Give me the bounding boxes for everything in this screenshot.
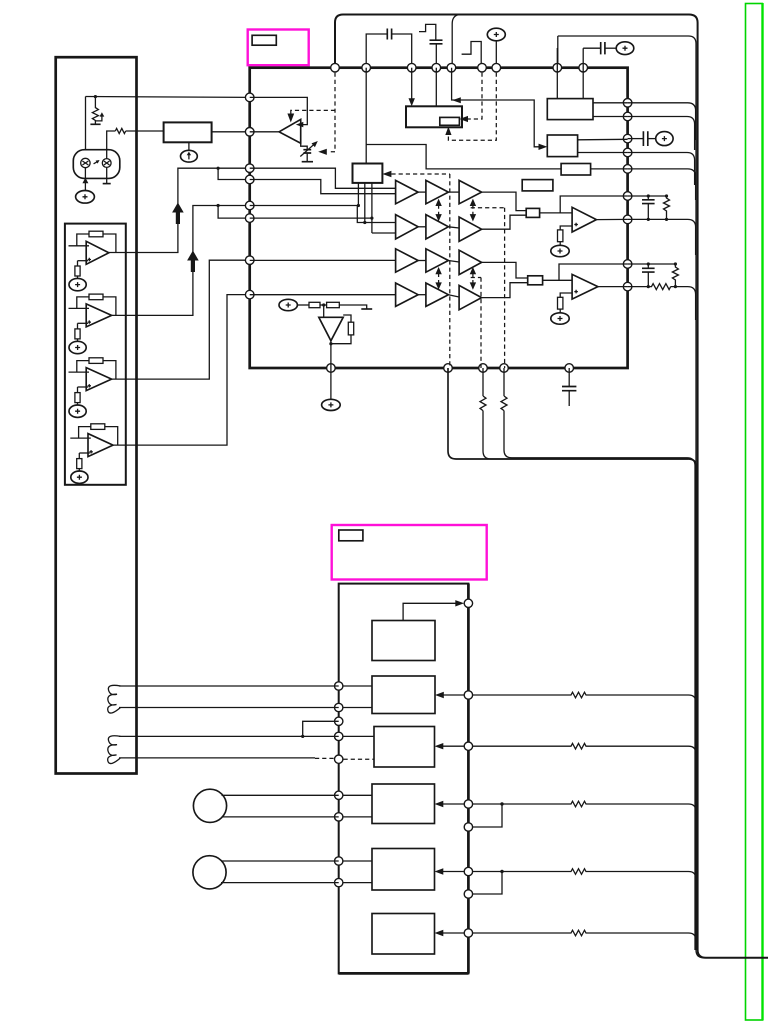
merge rect M2 (528, 276, 543, 285)
buffer U9b (426, 283, 449, 306)
dashed stub into D3 (344, 758, 375, 760)
wire: feedback into D4 with arrowhead (443, 803, 465, 805)
driver box D1 (372, 621, 435, 661)
mixer merge wires pair 2 (482, 262, 528, 278)
block B (547, 135, 577, 157)
wire: M2 tee up to pin y264 (559, 264, 628, 280)
resistor R12 (bias) (75, 266, 80, 276)
arrowhead to node (455, 600, 464, 606)
U2 input wire (69, 307, 90, 309)
U3 bias wire (77, 387, 79, 393)
wire: L2 top to driver pin (with jog) (119, 735, 339, 737)
wire: U12 output to pin (330, 341, 332, 368)
arrowhead into B (539, 144, 548, 150)
arrowhead into comparator back (296, 122, 304, 127)
wire to supply oval (559, 242, 561, 246)
mixer merge wires pair 1 (482, 192, 527, 211)
IC pins left edge (245, 93, 254, 299)
wire: preamp4 output riser to pin (y294.6) (113, 295, 250, 446)
resistor R22 (bias) (75, 329, 80, 339)
junction (363, 221, 366, 224)
wire: head left leg down (84, 168, 86, 191)
wire: pin y152.5 to bus (628, 153, 695, 186)
green page frame (746, 4, 763, 1021)
head gap symbol left (81, 158, 90, 167)
wire: top-right cap feed (583, 47, 601, 49)
wire: rect C to pin (591, 168, 628, 170)
dashed continuation to pin (315, 757, 334, 759)
bias transfer arrow pair 2 (col3) (470, 267, 476, 290)
resistor R18 (vertical zigzag) (664, 196, 670, 219)
flux arrow between gaps (94, 161, 99, 164)
wire: pin to rect A left leg (556, 48, 558, 99)
wire: R16 to ground (339, 305, 366, 309)
resistor R16 (327, 302, 340, 307)
wire: C2 to pin (435, 44, 437, 64)
junction (500, 802, 503, 805)
capacitor C5 plates (643, 131, 647, 146)
wire: pin x569.2 to cap (568, 368, 570, 386)
driver box D5 (372, 849, 435, 891)
ground bar on head right leg (103, 183, 111, 185)
wire: L1 top to driver pin (119, 685, 339, 687)
wire: switch block drop 2 (364, 183, 366, 223)
output amp U11 (572, 274, 598, 299)
U2 bias wire (77, 323, 79, 329)
U4 bias wire (78, 453, 80, 459)
ground bar (361, 308, 372, 310)
U4 feedback wire right (105, 427, 118, 446)
resistor R14 (U11 bias) (558, 297, 563, 309)
ref amp U12 (points down) (319, 317, 343, 341)
wire: M2 upper lead (221, 860, 339, 862)
buffer U7a (396, 215, 419, 239)
wire: pin x504 leg (503, 368, 505, 396)
wire: row2 lower input (250, 218, 396, 233)
plus mark at U1 input (88, 258, 91, 261)
outer supply bus (top rail, right rail, bottom-right exit) (335, 15, 768, 958)
rect D (level set 2) (522, 180, 553, 191)
junctions (647, 285, 650, 288)
wire: left pins into D5 (339, 860, 372, 862)
junction (500, 870, 503, 873)
wire: pin to rect A right leg (582, 48, 584, 98)
screw mark left (82, 161, 88, 165)
plus sign in B1 (83, 194, 88, 199)
wire: preamp1 output riser to pin (y168.6) (109, 168, 250, 252)
wire: U10 output to pin (596, 218, 627, 220)
wire: C5 to oval (648, 138, 656, 140)
junction (370, 217, 373, 220)
comparator U5 (points left) (279, 119, 301, 143)
U2 bias wire to supply (77, 339, 79, 342)
connector arrow A2 (solid) (187, 251, 199, 273)
feedback wire (343, 315, 351, 322)
RC network 2 top wire (628, 263, 676, 265)
arrow into comparator top (solid) (287, 114, 294, 123)
dashed link from top pin (328, 73, 335, 152)
screw mark right (104, 161, 110, 165)
arrowhead into oscillator (409, 98, 415, 106)
wire: B out 1 (578, 138, 628, 141)
op-amp U4 triangle (88, 434, 113, 457)
wire: R15 to R16 (320, 304, 327, 306)
bottom driver block bottom edge (thick) (339, 972, 469, 975)
arrowhead trim link bottom (up into block) (445, 127, 451, 135)
wire: U11 bias (560, 293, 572, 297)
wire: amp2 output line to bus (671, 287, 696, 320)
sense line 5 with resistor R27 (473, 930, 696, 950)
U3 bias wire to supply (77, 403, 79, 406)
preamp U1 (69, 231, 116, 291)
junction (217, 167, 220, 170)
U1 bias wire to supply (77, 276, 79, 279)
highlight box 2 (magenta) (332, 525, 487, 580)
wire link (448, 295, 459, 297)
wire: switch block drop 1 (357, 183, 359, 206)
plus mark at U4 input (89, 450, 92, 453)
ground bar under R1 (90, 123, 100, 125)
highlight box 1 (magenta) (248, 30, 309, 66)
bias transfer arrow pair 2 (col2) (435, 267, 441, 290)
wire link (418, 226, 426, 228)
rect C (level set) (561, 164, 591, 176)
wire: M1 tee up to pin y196 (560, 196, 627, 213)
supply oval B9 (279, 299, 297, 310)
wire link (448, 227, 459, 228)
sense line 1 with resistor R23 (473, 692, 696, 730)
bias transfer arrow pair 1 (col3) (470, 199, 476, 222)
bottom driver block outline (339, 584, 469, 974)
buffer U7c (459, 217, 482, 241)
buffer U9a (396, 283, 419, 306)
wire: D1 to output node (403, 603, 456, 620)
capacitor C3 plates (601, 42, 605, 54)
buffer U8c (459, 250, 482, 274)
logic-level symbol G2 (462, 42, 482, 64)
wire: feed into B (452, 68, 539, 147)
wire: cap loop right leg (392, 34, 412, 64)
supply oval B21 (69, 341, 86, 353)
wire link (418, 260, 426, 262)
wire to supply oval (559, 309, 561, 313)
preamp sub-box (65, 224, 126, 485)
wire: B5 to pin (495, 41, 497, 64)
wire: R22a to lower bus (504, 411, 695, 950)
jog wire up to pin y721.3 (303, 721, 339, 736)
arrow glyph inside supply oval (188, 153, 190, 159)
wire: jog pin y179.5 (218, 168, 250, 179)
capacitor C1 plates (387, 29, 391, 40)
U1 feedback wire right (103, 234, 116, 253)
plus mark in U10 (574, 223, 578, 227)
wire: B out 2 (578, 152, 628, 154)
arrowhead trim link right (459, 116, 468, 122)
wire: feedback into D3 with arrowhead (443, 745, 465, 747)
U2 feedback wire left (77, 297, 89, 309)
supply oval B11 (69, 278, 86, 290)
wire: row3 input (250, 259, 396, 261)
wire: U11 output to pin (598, 286, 628, 288)
coil L2 (108, 736, 121, 764)
buffer U6c (459, 180, 482, 203)
resistor R42 (bias) (77, 459, 82, 469)
wire: M1 to output amp (540, 212, 573, 214)
wire: pin drop into oscillator 2 (435, 68, 437, 107)
plus mark at U3 input (88, 384, 91, 387)
supply oval under EQ block (181, 150, 198, 162)
U3 feedback wire right (103, 361, 116, 380)
supply oval B6 (616, 42, 634, 55)
main IC block outline (250, 68, 628, 368)
dashed vertical bus 1 (449, 174, 451, 368)
wire: pin drop into oscillator (411, 68, 413, 100)
varicap hook from comparator (301, 139, 308, 150)
coil L1 (108, 685, 121, 713)
plus sign in B21 (75, 345, 80, 350)
capacitor C7 (647, 264, 649, 268)
U4 bias wire to supply (78, 469, 80, 472)
varicap C4 plates (303, 150, 311, 153)
wire: amp1 output line to bus (628, 219, 696, 255)
resistor R22a (vertical zigzag) (501, 396, 507, 411)
trimmer hook beside R1 (95, 115, 102, 121)
oscillator block (top-center) (406, 106, 462, 127)
head gap symbol right (102, 159, 111, 168)
junction (301, 735, 304, 738)
buffer U9c (459, 285, 482, 309)
wire: C3 to oval (605, 47, 616, 49)
plus sign in B10 (662, 136, 667, 141)
plus sign in B7 (558, 249, 563, 254)
U4 input wire (70, 437, 91, 439)
buffer U6a (396, 180, 419, 203)
dashed trim link right (468, 73, 483, 119)
resistor R21 (feedback) (89, 294, 103, 300)
driver box D6 (372, 914, 435, 955)
resistor R2 (horizontal zigzag) (115, 128, 125, 133)
resistor R19 (vertical zigzag) (672, 264, 678, 287)
inner supply bus branch (corner to pin) (452, 15, 460, 64)
wire: B9 to R15 (297, 304, 309, 306)
wire: left pins into D2 (339, 685, 372, 687)
wire: branch to rect C jog (366, 145, 561, 169)
bottom driver block right edge (thick) (467, 584, 470, 974)
dashed control line to switch block (391, 173, 449, 175)
wire: left pins into D4 (339, 794, 372, 796)
dashed vertical bus 2 (504, 208, 506, 368)
label rect inside highlight box 1 (252, 35, 276, 45)
wire: row1 upper input (250, 168, 396, 188)
op-amp U2 triangle (86, 304, 111, 327)
bias transfer arrow pair 1 (col2) (435, 199, 441, 222)
U1 plus input stub (78, 260, 89, 262)
wire: M2 to output amp (543, 279, 573, 281)
wire link (418, 294, 426, 296)
wire: row4 input (250, 294, 396, 296)
IC pins right edge (623, 99, 632, 291)
jog from pin y894 (473, 872, 502, 895)
wire: A out 2 (593, 116, 628, 118)
buffer U7b (426, 215, 449, 239)
tape head body (73, 150, 120, 179)
wire: pin y97.4 into comparator (250, 97, 308, 124)
green frame right edge (thicker) (761, 3, 763, 1021)
wire: pin y102.8 to bus (628, 103, 696, 140)
preamp U2 (69, 294, 116, 354)
battery oval B1 (76, 191, 95, 204)
buffer U8a (396, 249, 419, 272)
varicap ground leg (306, 153, 308, 162)
buffer U8b (426, 249, 449, 272)
RC network 1 top wire (628, 195, 667, 197)
arrowhead into switch block right edge (382, 171, 391, 178)
plus sign in B11 (75, 282, 80, 287)
buffer U6b (426, 180, 449, 203)
wire: pin y168.9 to bus (628, 169, 696, 200)
resistor R21a (vertical zigzag) (480, 396, 486, 411)
wire: inner bus drop to top pin (557, 36, 559, 64)
wire: R21a to lower bus (483, 411, 688, 459)
junction (357, 204, 360, 207)
wire: U10 bias (560, 226, 572, 230)
capacitor C8 (562, 387, 576, 391)
arrowhead (left) at varicap (318, 149, 327, 155)
U4 feedback wire left (79, 427, 91, 439)
IC pins bottom edge (327, 364, 574, 373)
driver box D4 (372, 784, 435, 824)
resistor R11 (feedback) (89, 231, 103, 237)
supply oval B8 (551, 313, 569, 324)
wire: pin y116.5 to bus (628, 117, 695, 151)
sense line 2 with resistor R24 (473, 743, 696, 785)
wire: row2 upper input (250, 206, 396, 223)
junctions (647, 194, 650, 197)
trim rect inside oscillator block (440, 117, 460, 125)
wire: L2 bottom line (119, 757, 315, 759)
plus sign in B5 (494, 32, 499, 37)
U2 plus input stub (78, 322, 89, 324)
junctions (647, 262, 650, 265)
ground bar under varicap (302, 161, 313, 163)
wire: pin y131.8 to comparator apex (250, 131, 279, 133)
resistor R17 (feedback) (348, 322, 353, 335)
wire: pin y=366 drop to switch block (365, 68, 367, 164)
jog from pin y827 (473, 804, 502, 827)
IC pins top edge (331, 63, 588, 72)
driver box D2 (372, 676, 435, 714)
junction (329, 342, 332, 345)
U3 plus input stub (78, 386, 89, 388)
wire: feedback into D6 with arrowhead (443, 932, 465, 934)
wire link (448, 261, 459, 263)
label rect inside highlight box 2 (339, 530, 363, 541)
plus sign in B6 (623, 46, 628, 51)
sense line 3 with resistor R25 (473, 801, 696, 840)
motor M1 (193, 789, 226, 822)
wire: switch block drop 3 (371, 183, 373, 233)
wire: R2 to EQ block (126, 130, 164, 132)
resistor R1 (vertical zigzag) (92, 97, 98, 124)
wire: feedback into D2 with arrowhead (443, 694, 464, 696)
feedback return (331, 335, 351, 344)
EQ amp block (164, 122, 212, 142)
arrowhead on trimmer (100, 112, 105, 116)
resistor R32 (bias) (75, 393, 80, 403)
driver block pins left edge (335, 682, 343, 887)
varicap arrow (diagonal) (300, 144, 314, 156)
preamp U4 (70, 424, 117, 484)
arrow on head left leg (82, 178, 88, 184)
resistor R15 (309, 302, 320, 307)
capacitor C2 plates (430, 40, 443, 44)
dashed corner to bus 2 (471, 207, 505, 209)
resistor R20 (horizontal zigzag on output) (628, 284, 671, 290)
resistor R31 (feedback) (89, 358, 103, 364)
junction (217, 204, 220, 207)
wire: EQ block to its supply oval (188, 142, 190, 150)
U3 input wire (69, 371, 90, 373)
wire: bias feed to IC pin (y96.5) (86, 96, 250, 99)
U1 feedback wire left (77, 234, 89, 246)
regulator block A (547, 99, 593, 120)
supply oval B5 (487, 28, 505, 41)
U3 feedback wire left (77, 361, 89, 373)
sense line 4 with resistor R26 (473, 869, 696, 911)
plus sign in B12 (328, 402, 333, 407)
U1 bias wire (77, 261, 79, 266)
arrowhead at feed corner (452, 97, 461, 103)
plus sign in B8 (558, 316, 563, 321)
merge rect M1 (526, 208, 539, 217)
wire: pin x483 leg (482, 368, 484, 396)
wire: head right leg down (106, 167, 108, 183)
wire: pin x330.9 to supply oval (330, 368, 332, 399)
inner bus rail (right side second conductor) (558, 36, 768, 958)
wire link (418, 191, 426, 193)
junction (322, 303, 325, 306)
wire: L1 bottom to driver pin (119, 707, 339, 709)
dashed trim link bottom (448, 73, 496, 141)
wire: left pin into D3 (339, 735, 374, 737)
plus mark at U2 input (88, 320, 91, 323)
left input column outline (56, 57, 137, 773)
junction (94, 95, 97, 98)
U4 plus input stub (79, 452, 90, 454)
wire: cap loop left leg (366, 34, 387, 64)
dashed corner to bus 3 (471, 277, 481, 279)
resistor R41 (feedback) (91, 424, 105, 430)
wire: M1 upper lead (222, 794, 339, 796)
output amp U10 (572, 207, 596, 232)
wire: junction into ref amp (323, 305, 325, 317)
plus sign in B41 (77, 475, 82, 480)
supply oval B10 (656, 132, 673, 146)
U2 feedback wire right (103, 297, 116, 316)
wire: head right leg up (107, 131, 116, 159)
wire: jog pin y218.1 (218, 206, 250, 219)
junctions bottom (647, 218, 650, 221)
capacitor C6 (647, 196, 649, 200)
plus sign in B9 (286, 303, 291, 308)
supply oval B12 (322, 399, 341, 410)
op-amp U1 triangle (86, 241, 109, 264)
driver box D3 (374, 727, 435, 768)
wire: preamp3 output riser to pin (y260.2) (112, 260, 250, 379)
wire: preamp2 output riser to pin (y205.5) (112, 206, 250, 316)
wire: feedback into D5 with arrowhead (443, 871, 465, 873)
dashed link to comparator arrow (291, 110, 335, 113)
